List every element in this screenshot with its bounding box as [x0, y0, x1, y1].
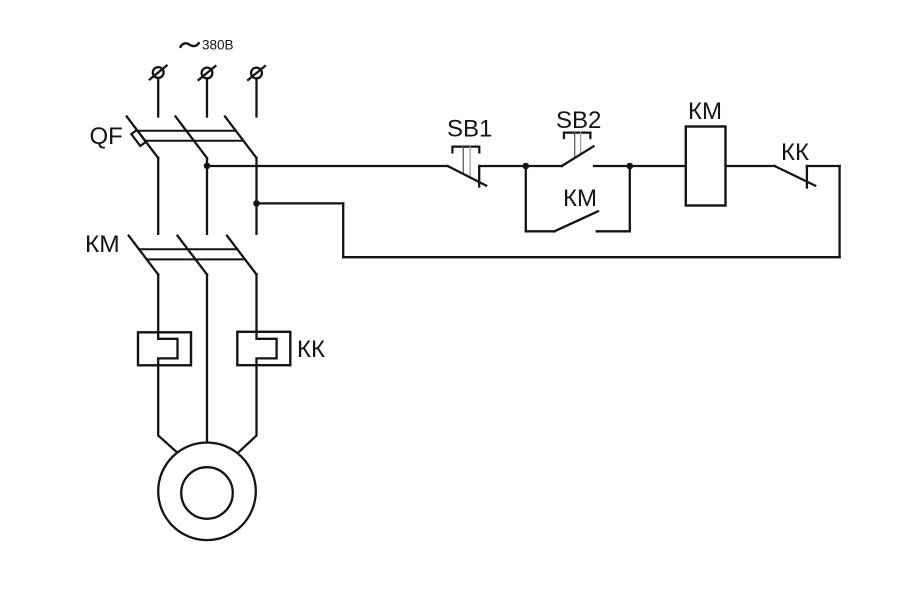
contactor KM pole 1 contact [129, 236, 159, 275]
node control tap 2 [253, 200, 260, 207]
auxiliary contact KM blade [554, 211, 598, 231]
wire node B to coil [630, 165, 686, 167]
pushbutton SB1 plunger cap [452, 147, 479, 153]
breaker QF pole 3 contact [225, 117, 257, 159]
svg-text:КК: КК [781, 139, 809, 166]
thermal element KK heater 2 box [237, 332, 290, 365]
wire bottom return [343, 256, 839, 258]
terminal L1 [150, 66, 167, 80]
wire SB1 to node [479, 165, 526, 167]
pushbutton SB1 fixed terminal [478, 166, 480, 187]
wire SB2 to node B [594, 165, 630, 167]
contactor KM tie bar upper [139, 248, 237, 250]
thermal element KK heater 2 conductor [257, 332, 277, 365]
wire L2 drop [206, 78, 208, 116]
contactor KM tie bar lower [147, 258, 245, 260]
thermal element KK heater 1 conductor [158, 332, 177, 365]
breaker QF tie bar lower [145, 140, 243, 142]
contactor KM pole 2 contact [178, 236, 208, 275]
coil KM rectangle [686, 127, 726, 206]
thermal contact KK NC blade [775, 166, 816, 186]
wire phase B (QF to KM) [206, 158, 208, 234]
wire L1 drop [157, 78, 159, 117]
contactor KM pole 3 contact [227, 236, 257, 275]
svg-text:КМ: КМ [85, 231, 120, 258]
thermal contact KK fixed terminal [806, 166, 808, 188]
wire coil to KK contact [726, 165, 775, 167]
wire KK to right edge [807, 165, 840, 167]
breaker QF pole 2 contact [176, 117, 208, 159]
svg-text:QF: QF [90, 123, 123, 150]
pushbutton SB2 NO contact blade [562, 146, 594, 166]
breaker QF symbol square [131, 130, 146, 146]
svg-text:SB1: SB1 [447, 116, 492, 143]
pushbutton SB1 plunger rods [463, 147, 470, 178]
terminal L2 [199, 66, 216, 80]
wire tap 2 horizontal [257, 202, 344, 204]
node B [627, 163, 634, 170]
wire right drop [838, 166, 840, 257]
svg-text:380В: 380В [202, 38, 234, 53]
wire phase B (KM to motor) [206, 275, 208, 443]
net label ~380V [181, 38, 234, 53]
node control tap 1 [204, 163, 211, 170]
svg-text:КК: КК [297, 336, 325, 363]
thermal element KK heater 1 box [138, 332, 191, 365]
pushbutton SB2 plunger rods [575, 133, 581, 158]
motor M outer circle [158, 443, 256, 541]
wire KM aux bottom left [526, 230, 555, 232]
wire node A to SB2 [526, 165, 562, 167]
pushbutton SB2 plunger cap [564, 133, 591, 138]
breaker QF tie bar upper [138, 130, 236, 132]
pushbutton SB1 NC contact blade [448, 166, 487, 186]
wire KM aux up to node B [629, 166, 631, 231]
wire phase A (KM to KK heater) [157, 275, 159, 333]
svg-text:КМ: КМ [688, 98, 722, 125]
wire phase C (QF to KM) [255, 158, 257, 234]
node A [523, 163, 530, 170]
motor M inner circle [181, 467, 233, 519]
wire bottom step up [342, 203, 344, 257]
breaker QF pole 1 contact [127, 117, 159, 159]
wire phase C (KM to KK heater) [255, 275, 257, 332]
terminal L3 [248, 66, 265, 80]
svg-text:SB2: SB2 [556, 107, 601, 134]
wire node A down (KM aux branch) [525, 166, 527, 231]
wire heater 1 to motor [158, 365, 177, 452]
wire L3 drop [255, 78, 257, 116]
wire heater 2 to motor [238, 365, 257, 453]
wire KM aux bottom right [597, 230, 630, 232]
svg-text:КМ: КМ [563, 185, 597, 212]
wire control rail top [207, 165, 448, 167]
wire phase A (QF to KM) [157, 158, 159, 234]
